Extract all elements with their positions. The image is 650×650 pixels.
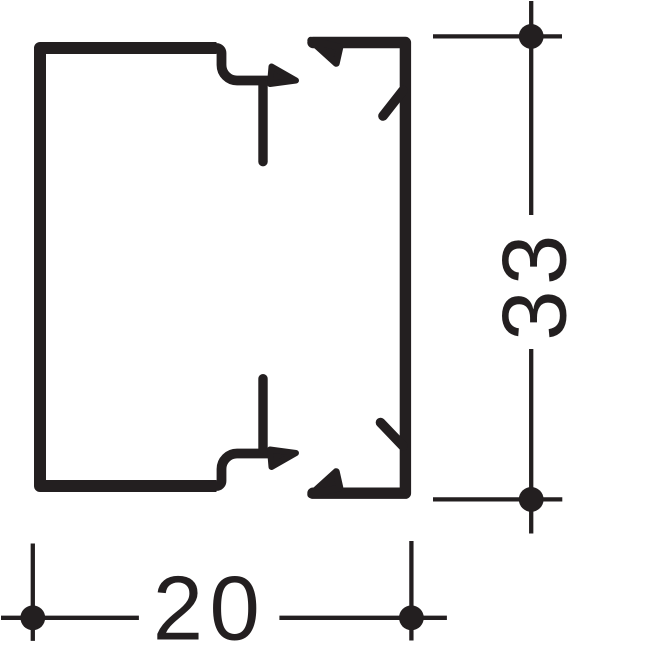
lid bottom arrow bbox=[311, 472, 340, 495]
vertical dimension line 33 bbox=[529, 1, 533, 534]
lid bottom diagonal stub bbox=[381, 423, 404, 447]
top hook arrow bbox=[270, 67, 296, 85]
dimension dot bottom bbox=[519, 487, 544, 512]
lid top arrow bbox=[311, 40, 340, 63]
bottom hook arrow bbox=[270, 450, 296, 468]
bottom extension tick bbox=[433, 497, 562, 501]
bottom hook s-curve bbox=[208, 454, 280, 487]
dimension dot top bbox=[519, 24, 544, 49]
top hook stem bbox=[258, 84, 267, 162]
left extension tick bbox=[31, 544, 35, 641]
top extension tick bbox=[433, 34, 562, 38]
lid top diagonal stub bbox=[383, 91, 403, 117]
left profile outline bbox=[40, 48, 217, 486]
top hook s-curve bbox=[208, 48, 280, 81]
dimension dot right bbox=[399, 605, 424, 630]
right extension tick bbox=[409, 541, 413, 641]
dimension dot left bbox=[20, 605, 45, 630]
right profile (lid) bbox=[313, 43, 405, 494]
bottom hook stem bbox=[258, 379, 267, 449]
horizontal dimension line 20 bbox=[1, 616, 447, 620]
